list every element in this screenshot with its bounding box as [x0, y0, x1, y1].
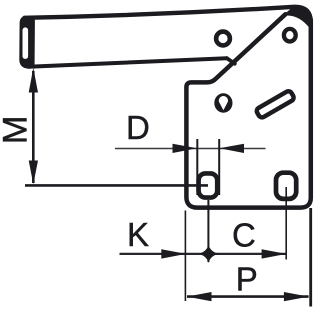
- bottom-right mounting hole: [276, 173, 296, 199]
- handle left end cap (filled): [19, 16, 35, 69]
- left extension line (plate edge, for K and P): [184, 211, 186, 302]
- svg-text:P: P: [236, 260, 258, 297]
- plate top edge with rounded top-right corner: [25, 7, 311, 22]
- bottom-right hole center extension: [285, 187, 287, 260]
- corner wedge fill at top-right: [278, 7, 309, 27]
- P dimension line: [187, 295, 309, 298]
- handle cap slot (white window): [23, 27, 29, 59]
- P right arrowhead: [284, 292, 309, 301]
- svg-text:C: C: [232, 216, 256, 253]
- plate body outline: right edge, bottom edge, left edge, ledge, chamfer diagonal: [186, 14, 310, 207]
- M dimension vertical line: [32, 71, 35, 183]
- P left arrowhead: [187, 292, 212, 301]
- D extension line right: [218, 139, 220, 195]
- top-right hole: [284, 29, 296, 42]
- bottom-left mounting hole: [199, 173, 218, 197]
- star junction at hole-center extension: [198, 245, 219, 263]
- svg-text:M: M: [0, 116, 35, 145]
- pivot hole on handle head: [216, 32, 230, 46]
- middle hole with teardrop opening: [214, 93, 232, 112]
- right extension line (plate edge, for P): [309, 208, 312, 307]
- K arrowhead: [161, 249, 186, 258]
- K/C dimension line: [120, 253, 287, 255]
- svg-text:D: D: [126, 109, 150, 146]
- handle bottom edge: [32, 58, 227, 66]
- hole-center extension line (M bottom reference): [25, 184, 208, 187]
- M top arrowhead: [29, 68, 38, 93]
- D left arrowhead: [173, 144, 198, 153]
- svg-text:K: K: [127, 216, 149, 253]
- slanted slot: [255, 90, 294, 119]
- C right arrowhead: [262, 249, 287, 258]
- bottom-left hole center extension: [207, 200, 209, 262]
- kink connector from handle bottom to chamfer: [227, 58, 235, 64]
- M bottom arrowhead: [29, 161, 38, 185]
- D dimension line: [115, 148, 266, 150]
- D right arrowhead: [219, 144, 244, 153]
- D extension line left: [196, 139, 198, 195]
